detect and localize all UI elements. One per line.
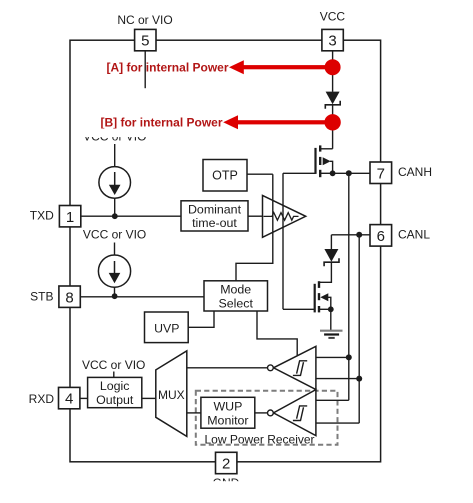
junction dot STB/I2: [112, 293, 118, 299]
wire MUX to WUP: [187, 412, 201, 414]
box OTP: [203, 160, 247, 192]
svg-text:OTP: OTP: [212, 169, 238, 183]
node pin5 stub: [144, 51, 146, 88]
svg-text:Mode: Mode: [220, 283, 251, 297]
wire I2 to STB line: [114, 287, 116, 297]
wire Mode Select to receiver 1: [257, 311, 297, 356]
svg-text:5: 5: [141, 33, 149, 50]
box UVP: [145, 312, 189, 343]
svg-text:NC or VIO: NC or VIO: [117, 13, 172, 27]
wire CANH line: [333, 172, 370, 174]
wire TXD line: [81, 215, 181, 217]
zener diode D2: [324, 249, 339, 266]
junction dot CANH tap: [346, 170, 352, 176]
svg-text:6: 6: [377, 228, 385, 245]
svg-text:time-out: time-out: [192, 216, 237, 230]
svg-text:Logic: Logic: [100, 379, 130, 393]
wire receiver1 output to MUX: [187, 367, 268, 369]
wire RXD to Logic Output: [80, 397, 88, 399]
svg-text:8: 8: [65, 289, 73, 306]
svg-text:Low Power Receiver: Low Power Receiver: [205, 432, 315, 446]
wire gate drive line: [282, 173, 284, 309]
junction dot: [356, 376, 362, 382]
pin 6: [370, 225, 392, 247]
wire TXD to driver: [248, 215, 263, 217]
wire receiver1 CANL tap: [316, 378, 359, 380]
wire WUP to receiver2 bubble: [255, 412, 268, 414]
transistor PMOS high-side: [283, 145, 333, 177]
wire CANH sense vertical: [348, 173, 350, 400]
svg-text:3: 3: [328, 33, 336, 50]
red arrow A: [229, 60, 333, 74]
svg-text:Output: Output: [96, 393, 134, 407]
svg-text:Select: Select: [218, 297, 253, 311]
pin 7: [370, 162, 392, 184]
svg-text:[B] for internal Power: [B] for internal Power: [100, 116, 222, 130]
red arrow B: [223, 115, 332, 129]
svg-text:VCC or VIO: VCC or VIO: [83, 228, 146, 242]
svg-text:CANL: CANL: [398, 228, 430, 242]
svg-text:TXD: TXD: [30, 209, 54, 223]
wire CANL sense vertical: [358, 235, 360, 423]
comparator receiver 2 (low power): [268, 390, 316, 436]
node B red dot: [324, 114, 340, 130]
label GND (clipped at bottom): [190, 476, 270, 503]
wire control line OTP/ModeSelect (through driver): [236, 174, 273, 281]
junction dot TXD/I1: [112, 213, 118, 219]
svg-text:7: 7: [377, 165, 385, 182]
svg-text:[A] for internal Power: [A] for internal Power: [106, 61, 228, 75]
svg-text:STB: STB: [30, 289, 53, 303]
current source I1: [99, 167, 131, 199]
comparator receiver 1: [268, 346, 316, 389]
junction dot: [346, 354, 352, 360]
wire receiver1 CANH tap: [316, 356, 349, 358]
wire stub to I1: [114, 144, 116, 167]
box Logic Output: [88, 377, 142, 407]
wire receiver2 CANL link: [316, 422, 359, 424]
zener diode D1: [325, 92, 340, 109]
wire I1 to TXD line: [114, 198, 116, 216]
wire receiver2 CANH link: [316, 399, 349, 401]
wire CANL line: [331, 234, 370, 236]
wire stub to Logic Output: [113, 372, 115, 378]
ground: [320, 331, 343, 338]
svg-text:UVP: UVP: [154, 321, 179, 335]
svg-text:WUP: WUP: [213, 399, 242, 413]
box Mode Select: [204, 281, 268, 311]
junction dot CANL tap: [356, 232, 362, 238]
wire zener D1 to red node B: [332, 105, 334, 123]
pin 2: [216, 452, 237, 473]
junction dot PMOS source: [330, 170, 336, 176]
pin 5: [135, 29, 156, 50]
mux MUX: [156, 351, 187, 437]
svg-text:MUX: MUX: [158, 388, 185, 402]
dashed box Low Power Receiver: [196, 391, 338, 445]
label VCC or VIO (clipped, above current source I1): [78, 129, 152, 144]
wire VCC rail x=332.6: [332, 51, 334, 92]
wire STB line: [81, 296, 204, 298]
transistor NMOS low-side: [283, 281, 331, 312]
pin 8: [59, 286, 80, 307]
svg-text:CANH: CANH: [398, 165, 432, 179]
svg-text:RXD: RXD: [29, 392, 55, 406]
wire NMOS source to ground: [330, 309, 332, 330]
wire Logic Output to MUX: [142, 397, 156, 399]
wire red node B to PMOS drain: [332, 122, 334, 149]
svg-text:4: 4: [65, 391, 73, 408]
node A red dot: [325, 59, 341, 75]
wire stub to I2: [114, 243, 116, 256]
op-amp driver: [263, 195, 306, 237]
pin 3: [322, 29, 343, 50]
box WUP Monitor: [201, 397, 255, 428]
wire zener D2 to NMOS drain: [320, 262, 332, 282]
chip boundary: [70, 40, 381, 462]
wire OTP to control line: [247, 173, 273, 175]
box Dominant time-out: [181, 201, 248, 231]
svg-text:VCC: VCC: [320, 10, 346, 24]
pin 1: [59, 206, 80, 227]
current source I2: [98, 255, 130, 287]
pin 4: [59, 387, 80, 408]
svg-text:Dominant: Dominant: [188, 203, 242, 217]
svg-text:1: 1: [66, 209, 74, 226]
svg-text:VCC or VIO: VCC or VIO: [82, 358, 145, 372]
resistor (inside driver): [264, 213, 299, 221]
svg-text:2: 2: [222, 456, 230, 473]
junction dot NMOS source: [328, 306, 334, 312]
wire CANL branch down: [330, 235, 332, 249]
svg-text:Monitor: Monitor: [207, 413, 248, 427]
wire Mode Select to UVP: [188, 311, 214, 327]
